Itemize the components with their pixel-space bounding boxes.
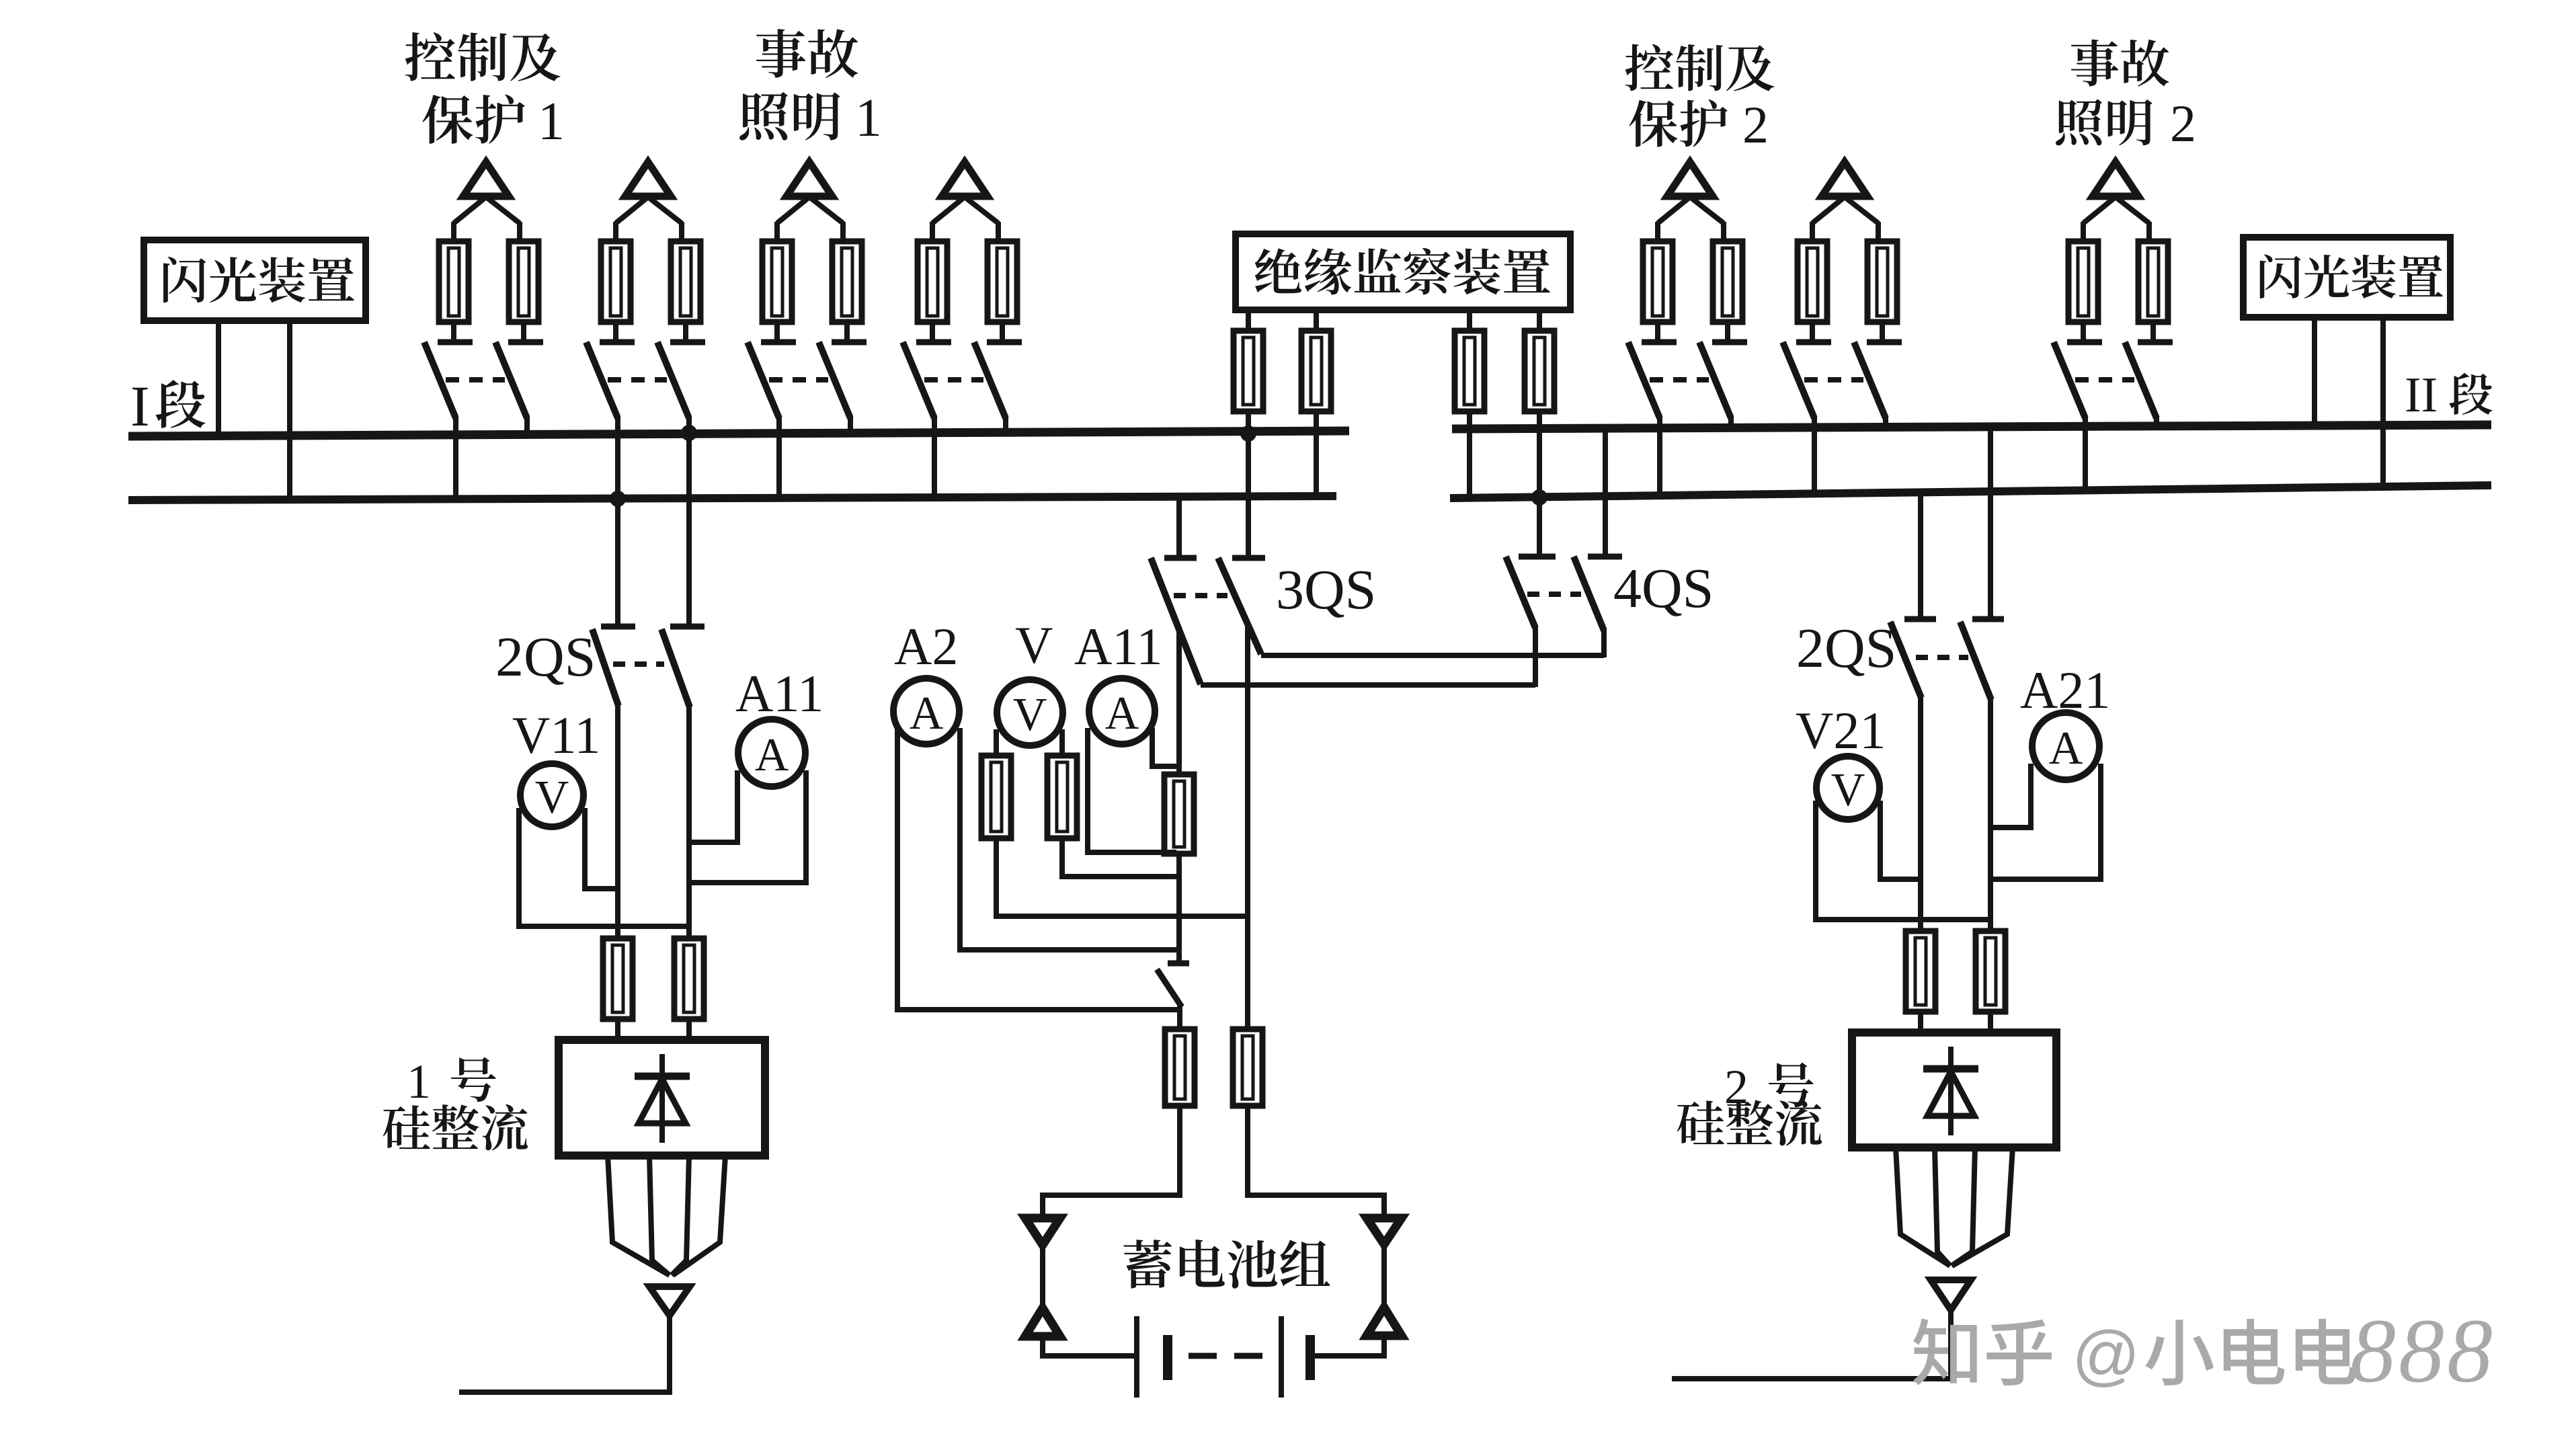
svg-text:V21: V21	[1796, 701, 1886, 760]
svg-text:1: 1	[855, 89, 882, 148]
svg-text:V: V	[1015, 616, 1053, 674]
svg-text:2: 2	[2170, 94, 2196, 153]
svg-text:V: V	[1831, 764, 1865, 816]
svg-text:V11: V11	[512, 706, 600, 764]
svg-text:A: A	[910, 688, 944, 739]
svg-text:2: 2	[1724, 1060, 1748, 1114]
svg-text:A: A	[1105, 688, 1139, 739]
svg-text:II: II	[2405, 368, 2438, 423]
svg-text:3QS: 3QS	[1276, 559, 1376, 621]
svg-text:2QS: 2QS	[1796, 617, 1896, 680]
svg-text:A: A	[2049, 723, 2083, 774]
svg-text:888: 888	[2350, 1301, 2495, 1402]
svg-text:1: 1	[407, 1055, 431, 1108]
svg-text:2QS: 2QS	[495, 626, 596, 688]
svg-text:A: A	[755, 729, 789, 781]
svg-text:A11: A11	[735, 664, 823, 723]
svg-text:A2: A2	[894, 617, 958, 676]
svg-text:V: V	[535, 772, 569, 823]
svg-text:1: 1	[538, 92, 565, 151]
svg-text:4QS: 4QS	[1613, 557, 1714, 620]
svg-text:A11: A11	[1074, 617, 1162, 676]
svg-text:V: V	[1013, 689, 1047, 741]
svg-text:I: I	[130, 374, 150, 438]
svg-text:@: @	[2072, 1318, 2140, 1393]
svg-text:2: 2	[1742, 95, 1769, 154]
